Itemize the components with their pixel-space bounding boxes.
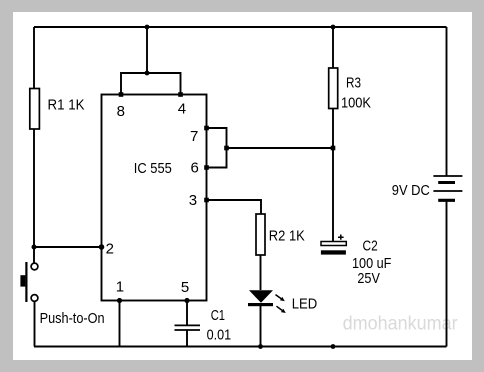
wire left rail mid [33,129,35,263]
svg-text:5: 5 [181,279,189,296]
svg-text:7: 7 [190,128,198,145]
op-amp/timer U1 IC 555 box [102,95,207,301]
wire right rail upper (to battery +) [446,27,448,176]
svg-text:R3: R3 [346,75,361,92]
wire bracket pins 7-6 [207,128,227,168]
node junction left rail / pin2 [32,245,37,250]
LED D1 [248,290,273,306]
battery BT1 9V DC [433,176,462,200]
node junction top rail / vcc drop [145,25,150,30]
LED light arrows [276,295,286,313]
wire R2 to LED [260,255,262,290]
wire R3 to C2 [332,109,334,242]
node pin 5 [184,298,189,303]
svg-text:IC 555: IC 555 [134,160,172,177]
wire top rail [34,26,447,28]
wire LED to bottom rail [260,306,262,347]
wire header pins 8 and 4 [121,73,181,95]
svg-text:6: 6 [191,160,199,177]
node junction top rail / R3 branch [331,25,336,30]
node junction bracket [224,146,229,151]
svg-text:1: 1 [116,279,124,296]
node pin 8 [119,92,124,97]
node pin 4 [178,92,183,97]
svg-text:C1: C1 [211,307,225,324]
capacitor C2 (electrolytic) [321,235,346,255]
wire left rail upper [33,27,35,89]
svg-text:R2 1K: R2 1K [269,228,305,245]
wire bracket to R3/C2 line [227,147,334,149]
node pin 2 [99,244,105,250]
wire button to bottom rail [34,302,36,347]
svg-text:9V DC: 9V DC [392,182,430,199]
svg-text:100K: 100K [341,95,371,112]
wire pin 3 to R2 [207,200,262,214]
resistor R3 [329,68,338,109]
node junction R3 line / pins 6-7 wire [331,146,336,151]
wire C1 to bottom rail [186,330,188,347]
svg-text:25V: 25V [357,270,380,287]
resistor R1 [30,89,40,130]
wire pin 5 to C1 [186,301,188,326]
svg-text:8: 8 [117,103,125,120]
node pin 6 [204,165,209,170]
svg-text:Push-to-On: Push-to-On [40,310,105,327]
svg-text:2: 2 [106,241,114,258]
svg-text:4: 4 [178,101,186,118]
svg-text:0.01: 0.01 [207,327,232,344]
wire pin 1 to bottom rail [119,301,121,347]
capacitor C1 [175,325,201,330]
node junction LED / bottom rail [258,344,263,349]
svg-text:C2: C2 [363,238,378,255]
node pin 3 [204,198,209,203]
node junction header [145,71,150,76]
wire bottom rail [34,346,447,348]
svg-text:dmohankumar: dmohankumar [343,314,459,335]
pushbutton S1 (Push-to-On) [20,262,38,302]
svg-text:R1 1K: R1 1K [48,97,85,114]
wire right rail lower (from battery -) [446,201,448,347]
wire vcc drop [146,27,148,73]
svg-text:3: 3 [189,192,197,209]
node junction C2 / bottom rail [331,344,336,349]
node pin 1 [117,298,122,303]
wire to pin 2 [34,246,102,248]
wire top rail to R3 [332,27,334,68]
node pin 7 [204,126,209,131]
svg-text:LED: LED [292,296,318,313]
resistor R2 [256,214,265,255]
